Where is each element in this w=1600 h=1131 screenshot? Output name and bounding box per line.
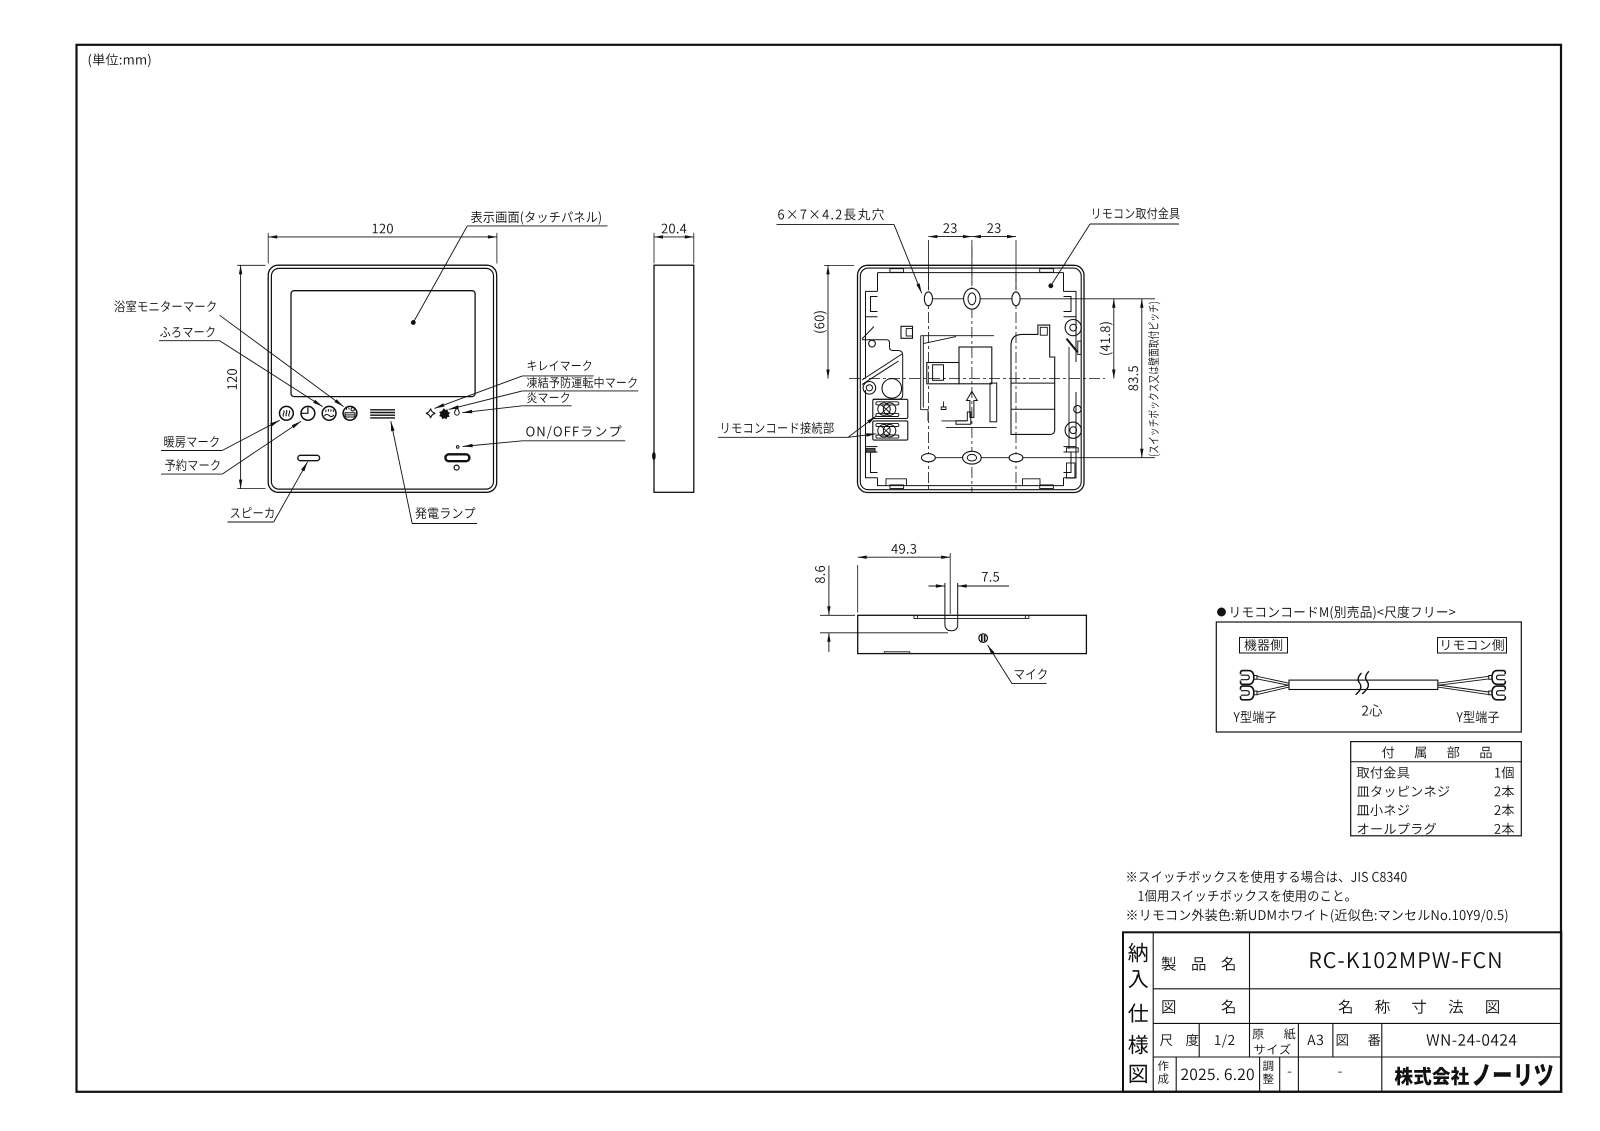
title block: product name value (1311, 952, 1501, 968)
label: bathroom monitor mark (114, 300, 215, 312)
icon: flame mark (455, 408, 460, 415)
label: 2-core (1362, 704, 1382, 716)
hole: top center double (964, 288, 981, 309)
icon: reservation clock mark circle (301, 406, 315, 420)
title block frame (1123, 932, 1561, 1091)
bottom view: U-shaped notch with extension lines (945, 583, 958, 631)
title block: drawing name label (1162, 1000, 1175, 1014)
Y terminal: right upper fork (1492, 671, 1505, 685)
label: remote controller mounting bracket (1093, 207, 1180, 219)
rear view: bottom-left dark tab (866, 449, 875, 453)
label: kirei mark (528, 360, 591, 371)
note: units (89, 53, 151, 67)
bottom view: body outline (858, 615, 1087, 653)
rear view: diagonal stub below top-right screw (1067, 339, 1078, 352)
rear view: bottom-right structures (1067, 448, 1079, 452)
header: remote controller cord M (sold separately) (1217, 608, 1225, 616)
label: furo mark (160, 326, 215, 337)
icon: kirei (sparkle) mark (426, 409, 435, 418)
rear view: body outer outline (858, 265, 1085, 492)
title block: drawing name value (1339, 1000, 1499, 1014)
reference line through bottom holes (933, 457, 1156, 459)
label: 6x7x4.2 oblong hole (778, 208, 884, 220)
Y terminal: left lower fork (1241, 686, 1254, 700)
rear view: large circle (cord hole) (882, 379, 902, 399)
dimension: (60) (824, 264, 854, 266)
rear view: corner hook cut-out top-right (1064, 291, 1077, 316)
note: exterior colour (1127, 909, 1507, 923)
label: display screen (touch panel) (471, 211, 601, 225)
table row: countersunk machine screws x2 (1357, 804, 1409, 816)
title block: adjust label (1263, 1061, 1273, 1071)
small circle below slot (454, 465, 459, 470)
Y terminal: left upper fork (1241, 671, 1254, 685)
cable body (1289, 680, 1438, 689)
rear view: up arrow symbol (967, 391, 978, 417)
rear view: small square with inner square (left) (901, 326, 913, 338)
title block: original size label/value (1253, 1028, 1296, 1039)
label: heating mark (164, 436, 218, 448)
rear view: small circle upper-left (869, 340, 876, 347)
title block: created label/date (1158, 1060, 1169, 1071)
rear view: diagonal ribs top-left (862, 327, 902, 385)
rear view: corner hook cut-out top-left (866, 291, 878, 316)
cord drawing box (1216, 622, 1521, 732)
generation lamp: four horizontal bars (370, 409, 395, 411)
lower-right slot (bold) (445, 454, 469, 461)
ON/OFF lamp small dot (456, 446, 459, 449)
icon: bathroom monitor mark circle (322, 406, 336, 420)
rear view: plate right edge line (1068, 347, 1070, 449)
dimension: 83.5 (1141, 299, 1143, 458)
company logo: Noritz (1395, 1067, 1469, 1086)
accessories table frame (1351, 742, 1522, 836)
rear view: body inner outline (860, 268, 1081, 490)
front view: display screen (touch panel) (291, 291, 475, 397)
rear view: top edge small tabs (890, 269, 904, 273)
front view: body inner outline (271, 268, 493, 489)
rear view: left block outline (862, 340, 903, 400)
centerline: vertical middle (971, 247, 973, 492)
rear view: right edge tab (1078, 341, 1081, 354)
label: ON/OFF lamp (526, 425, 621, 438)
cable break symbol (1356, 671, 1369, 695)
label: speaker (231, 507, 274, 518)
bottom view: recessed top slot (914, 615, 1029, 618)
rear view: mounting bracket plate outline (866, 273, 1077, 486)
title block: drawing number label/value (1337, 1034, 1381, 1046)
rear view: central bracket right slot (990, 383, 997, 422)
side view: small protrusion on left face (652, 452, 656, 460)
label: flame mark (527, 392, 569, 404)
rear view: terminal block 1 (873, 399, 908, 418)
rear view: right bracket outline (1011, 325, 1055, 434)
dimension: 23 / 23 hole pitch (927, 240, 929, 291)
rear view: bottom edge small tabs (890, 485, 904, 489)
centerline: vertical left hole (927, 272, 929, 489)
side view: body outline (654, 265, 694, 492)
label: Y terminal right (1457, 711, 1499, 723)
table row: mounting bracket x1 (1357, 766, 1409, 778)
rear view: corner hook cut-out bottom-left (866, 447, 878, 478)
rear view: small circle right (1074, 406, 1081, 413)
icon: heating mark circle (dankai) (280, 406, 294, 420)
rear view: terminal block 2 (873, 421, 908, 440)
label: freeze protection running mark (527, 377, 637, 389)
rear view: bottom edge step details (886, 479, 1040, 486)
hole: top left oblong (924, 292, 932, 306)
rear view: screw boss left (double circle) (863, 382, 876, 395)
label box: equipment side (1240, 638, 1288, 654)
dimension: 8.6 (820, 614, 855, 616)
rear view: right bracket divider lines (1011, 382, 1055, 384)
speaker slot (298, 455, 320, 460)
rear view: right bracket inner square (1040, 327, 1047, 335)
microphone hole (979, 634, 988, 643)
hole: bottom left oblong (922, 454, 936, 462)
label: reservation mark (165, 459, 220, 471)
hole: bottom right oblong (1009, 454, 1023, 462)
dimension: (41.8) (1113, 299, 1115, 379)
reference line through top holes (933, 298, 1156, 300)
label: Y terminal left (1234, 711, 1276, 723)
rear view: right screws (double circles) (1065, 320, 1081, 336)
dimension: 120 height, front view (237, 264, 265, 266)
title block: scale label/value (1160, 1034, 1199, 1046)
Y terminal: right lower fork (1492, 686, 1505, 700)
label: remote controller cord connection (722, 422, 834, 434)
title block: vertical caption (delivery specification drawing) (1128, 943, 1147, 962)
table header: accessories (1382, 746, 1492, 758)
label box: remote controller side (1438, 638, 1507, 654)
centerline: horizontal (849, 378, 1105, 380)
dimension: 20.4 depth (653, 233, 655, 264)
note: use single switch box (1139, 890, 1349, 902)
hole: top right oblong (1012, 292, 1020, 306)
rear view: small pin (941, 402, 946, 410)
note: switch box JIS C8340 (1127, 871, 1406, 883)
rear view: central bracket inner rect with window (927, 363, 959, 384)
table row: wall plugs x2 (1358, 823, 1436, 835)
note: switch box / wall mounting pitch (rotated) (1148, 302, 1160, 456)
dimension: 7.5 (929, 585, 945, 587)
centerline: vertical right hole (1015, 272, 1017, 489)
rear view: L-shaped bracket below arrow (956, 412, 971, 424)
bottom view: bottom edge recess (884, 652, 910, 654)
dimension: 49.3 (857, 565, 859, 613)
table row: countersunk tapping screws x2 (1357, 786, 1449, 798)
label: microphone (1015, 669, 1047, 680)
rear view: corner hook cut-out bottom-right (1064, 447, 1077, 478)
label: generation lamp (415, 507, 475, 519)
icon: freeze-protection-running mark (filled) (440, 409, 449, 419)
dimension: 120 width, front view (267, 233, 269, 264)
front view: remote controller body outer outline (268, 265, 497, 492)
rear view: central bracket right box (959, 347, 992, 384)
hole: bottom center double (963, 451, 982, 464)
icon: bath (furo) mark circle (343, 406, 357, 420)
title block: product name label (1162, 957, 1235, 971)
rear view: central bracket outline (921, 336, 997, 428)
